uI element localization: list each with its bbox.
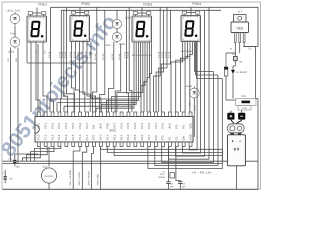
LED3 [112, 19, 121, 28]
svg-text:P3.6: P3.6 [140, 134, 144, 140]
svg-text:XT2: XT2 [154, 135, 158, 141]
power rail 2 [61, 9, 221, 11]
svg-text:FND4: FND4 [192, 2, 201, 6]
svg-text:P1.6: P1.6 [78, 134, 82, 140]
svg-text:P1.3: P1.3 [57, 134, 61, 140]
svg-text:RST: RST [92, 135, 96, 141]
svg-text:P0.3: P0.3 [57, 122, 61, 128]
svg-text:P0.1: P0.1 [43, 122, 47, 128]
wires FND3 fan [96, 43, 134, 113]
svg-text:LED3: LED3 [125, 16, 132, 19]
svg-text:P0.: P0. [181, 124, 185, 128]
svg-text:VCC: VCC [188, 123, 192, 129]
svg-text:LED1 : A.M: LED1 : A.M [6, 10, 19, 13]
svg-text:SW2 # SAVE: SW2 # SAVE [78, 172, 81, 186]
svg-text:33P: 33P [182, 185, 186, 188]
caps C3 C4 [167, 179, 169, 182]
battery clip [227, 124, 244, 133]
wire top loops FND2 [71, 11, 75, 14]
svg-text:R 1.5K: R 1.5K [102, 53, 105, 60]
svg-text:LED5: LED5 [186, 85, 193, 88]
border frame [2, 2, 261, 189]
wires segment drops between FND1/FND2 [51, 7, 54, 112]
battery snap terminals [227, 113, 234, 120]
svg-text:33P: 33P [170, 185, 174, 188]
svg-text:R 1.5K: R 1.5K [80, 51, 83, 58]
7-segment display FND2 [70, 16, 90, 42]
wire top loops FND4 [182, 11, 186, 14]
wires xtal pins [167, 147, 169, 173]
wires FND1 outputs [30, 42, 32, 113]
svg-text:R 1.5K: R 1.5K [84, 51, 87, 58]
svg-text:P0.7: P0.7 [85, 122, 89, 128]
battery 9V [230, 133, 233, 135]
wires FND4 right side nest [148, 79, 222, 169]
svg-text:FND2: FND2 [81, 2, 90, 6]
wires segment drops left of FND3 [126, 10, 128, 112]
svg-text:P1.2: P1.2 [50, 134, 54, 140]
svg-text:d: d [197, 38, 198, 41]
svg-text:P2.4: P2.4 [133, 122, 137, 128]
svg-text:SW4 # MIN: SW4 # MIN [96, 173, 99, 185]
wires bus above IC [50, 98, 139, 100]
svg-text:P3.7: P3.7 [147, 134, 151, 140]
svg-text:P0.4: P0.4 [64, 122, 68, 128]
svg-text:P2.3: P2.3 [140, 122, 144, 128]
svg-text:P1.4: P1.4 [64, 134, 68, 140]
wire buzzer feed [48, 147, 50, 167]
wire rail branches [116, 10, 118, 18]
svg-text:R 1.5K: R 1.5K [48, 51, 51, 58]
wires snap to clip curved [231, 120, 234, 124]
svg-text:P2.6: P2.6 [119, 122, 123, 128]
svg-text:R 1.5K: R 1.5K [61, 51, 64, 58]
svg-text:P2.5: P2.5 [126, 122, 130, 128]
wires LED3/LED4 down [108, 42, 113, 112]
svg-text:P2.2: P2.2 [147, 122, 151, 128]
svg-text:d: d [43, 39, 44, 42]
svg-text:7805: 7805 [236, 27, 243, 31]
svg-text:P0.5: P0.5 [71, 122, 75, 128]
wires IC bottom left to edge [23, 147, 41, 162]
svg-text:R 1.5K: R 1.5K [161, 51, 164, 58]
svg-text:12MHZ: 12MHZ [158, 176, 166, 179]
svg-text:P2.1: P2.1 [154, 122, 158, 128]
wire top loops FND3 [133, 12, 137, 15]
svg-text:P1.1: P1.1 [43, 134, 47, 140]
svg-text:SW3 # HOUR: SW3 # HOUR [87, 171, 90, 186]
LED4 [112, 32, 121, 41]
svg-text:PSE: PSE [106, 123, 110, 129]
svg-text:LED2: LED2 [8, 50, 15, 53]
svg-text:LED4: LED4 [119, 43, 126, 46]
svg-text:CN1: CN1 [241, 95, 247, 98]
svg-text:R 1.5K: R 1.5K [164, 51, 167, 58]
wires switches [73, 147, 80, 190]
7-segment display FND1 [27, 16, 47, 42]
svg-text:P3.: P3. [168, 136, 172, 140]
svg-text:P0.2: P0.2 [50, 122, 54, 128]
svg-text:P3.4: P3.4 [126, 134, 130, 140]
wire LED1-LED2 [14, 26, 16, 36]
diode D1 1N4007 [231, 70, 234, 74]
svg-text:P1.5: P1.5 [71, 134, 75, 140]
svg-text:XT1: XT1 [161, 135, 165, 141]
svg-text:P2.7: P2.7 [112, 122, 116, 128]
wire top loops FND1 [28, 12, 32, 15]
IC pins top [37, 112, 40, 117]
wires FND4 right pin corners [195, 71, 214, 73]
svg-text:FND3: FND3 [143, 3, 152, 7]
power rail top [51, 7, 259, 46]
svg-text:R 1.5K: R 1.5K [118, 53, 121, 60]
svg-text:GN: GN [181, 136, 185, 140]
svg-text:P0.6: P0.6 [78, 122, 82, 128]
svg-text:GND: GND [188, 134, 192, 140]
bottom rail [3, 163, 223, 165]
svg-text:R 1.5K: R 1.5K [88, 51, 91, 58]
svg-text:R 1.5K: R 1.5K [94, 53, 97, 60]
wires FND4 staircase left [171, 42, 183, 113]
svg-text:P2.0: P2.0 [161, 122, 165, 128]
svg-text:P3.5: P3.5 [133, 134, 137, 140]
svg-text:R 1.5K: R 1.5K [127, 51, 130, 58]
svg-text:SW1 # ALARM: SW1 # ALARM [69, 170, 72, 185]
svg-text:FND1: FND1 [38, 3, 47, 7]
svg-text:R 1.5K: R 1.5K [168, 51, 171, 58]
svg-text:XTAL: XTAL [160, 173, 166, 176]
svg-text:P1.0: P1.0 [37, 134, 41, 140]
wires colon drive drops [93, 7, 97, 112]
svg-text:P3.0: P3.0 [99, 134, 103, 140]
7-segment display FND3 [132, 16, 152, 42]
svg-text:R 1.5K: R 1.5K [73, 51, 76, 58]
wires left edge vertical pair (LED1/2) [10, 48, 12, 162]
svg-text:R 1.5K: R 1.5K [64, 51, 67, 58]
svg-text:P3.2: P3.2 [112, 134, 116, 140]
IC U2 8051 body [35, 117, 193, 143]
svg-text:9 V: 9 V [234, 148, 240, 152]
svg-text:R 1.5K: R 1.5K [77, 51, 80, 58]
svg-text:P1.7: P1.7 [85, 134, 89, 140]
svg-text:ALE: ALE [168, 123, 172, 128]
svg-text:BUZZER: BUZZER [45, 175, 54, 178]
svg-text:R 1.5K: R 1.5K [124, 51, 127, 58]
svg-text:P3.3: P3.3 [119, 134, 123, 140]
7-segment display FND4 [181, 16, 201, 42]
svg-text:U.T: U.T [238, 10, 243, 14]
svg-text:d: d [148, 39, 149, 42]
wires CN1 [232, 80, 234, 99]
svg-text:P3.1: P3.1 [106, 134, 110, 140]
svg-text:R 1.5K: R 1.5K [111, 53, 114, 60]
svg-text:C.P: C.P [232, 53, 236, 56]
svg-text:P3.: P3. [175, 136, 179, 140]
svg-text:EA: EA [92, 125, 96, 129]
svg-text:D1 IN4007: D1 IN4007 [236, 71, 248, 74]
regulator legs [234, 33, 236, 43]
svg-text:R1 ~ R8: 1.5K: R1 ~ R8: 1.5K [193, 171, 212, 175]
wires IC bottom right to battery bus [100, 147, 222, 150]
wires segment drops left of FND4 [154, 7, 161, 112]
svg-text:ALE: ALE [99, 123, 103, 128]
svg-text:d: d [86, 38, 87, 41]
svg-text:PWR: PWR [242, 107, 248, 110]
svg-text:R 1.5K: R 1.5K [158, 51, 161, 58]
svg-text:PS.: PS. [175, 124, 179, 129]
IC pins bottom [37, 142, 40, 147]
wires FND2 pins down [72, 42, 75, 113]
svg-text:LED4 : —: LED4 : — [105, 44, 116, 47]
svg-text:R 1.5K: R 1.5K [69, 51, 72, 58]
svg-text:P0.0: P0.0 [37, 122, 41, 128]
capacitor C1 electrolytic [225, 53, 227, 67]
